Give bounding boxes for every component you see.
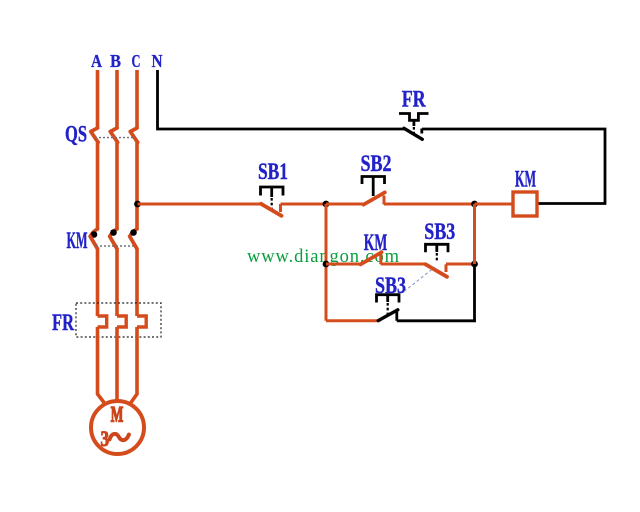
wire phase C lower	[135, 248, 139, 316]
coil KM	[513, 192, 537, 216]
SB3 top stem	[435, 244, 438, 252]
wire node to SB2	[326, 203, 364, 206]
svg-text:KM: KM	[364, 230, 388, 256]
svg-text:SB2: SB2	[361, 151, 392, 177]
wire motor lead A	[98, 327, 106, 405]
svg-text:KM: KM	[515, 167, 536, 193]
FR stem	[412, 120, 415, 126]
branch vertical left	[325, 204, 328, 321]
svg-text:C: C	[132, 51, 141, 71]
SB2 NO blade	[364, 192, 385, 204]
wire phase C middle	[135, 143, 139, 230]
disconnect switch QS pole A	[91, 128, 98, 142]
SB1 NC tick	[279, 204, 282, 212]
FR dashed box	[76, 303, 161, 337]
neutral wire right segment	[422, 129, 605, 204]
SB3 NO tick	[395, 311, 398, 321]
svg-text:SB3: SB3	[424, 219, 455, 245]
wire phase C top	[135, 70, 139, 128]
svg-text:M: M	[111, 401, 124, 426]
FR trip element	[399, 114, 429, 121]
node C tap	[134, 201, 141, 208]
wire phase B top	[115, 70, 119, 128]
node right middle	[471, 261, 478, 268]
SB2 stem	[372, 177, 375, 197]
right vertical black	[473, 264, 476, 322]
wire motor lead B	[115, 327, 119, 402]
thermal relay FR heater C	[137, 316, 146, 327]
motor M circle	[91, 401, 144, 454]
bottom wire black	[397, 319, 476, 322]
contactor KM main contact A	[91, 229, 98, 235]
SB1 button cap	[261, 187, 284, 196]
svg-text:FR: FR	[52, 310, 75, 336]
SB3 linkage dashed	[404, 267, 435, 292]
contactor KM main contact B	[111, 229, 118, 235]
SB1 stem	[270, 187, 273, 197]
SB1 NC blade	[261, 204, 282, 216]
wire phase B middle	[115, 143, 119, 230]
SB3 bottom button cap	[377, 295, 400, 303]
SB3 bottom stem	[386, 295, 389, 302]
wire SB3nc to node5	[446, 263, 475, 266]
thermal relay FR heater A	[98, 316, 107, 327]
bottom wire red	[326, 319, 378, 322]
wire to KM aux	[326, 263, 361, 266]
wire phase A middle	[96, 143, 100, 230]
svg-text:SB3: SB3	[375, 273, 406, 299]
svg-text:FR: FR	[402, 87, 427, 113]
disconnect switch QS pole B	[110, 128, 117, 142]
QS linkage dashed	[95, 137, 133, 139]
SB3 NO blade	[378, 310, 398, 321]
wire SB1 to node	[281, 203, 327, 206]
control wire to SB1	[138, 203, 262, 206]
contactor KM main contact C	[131, 229, 138, 235]
thermal relay FR heater B	[117, 316, 126, 327]
SB3 NC tick	[445, 264, 448, 272]
right vertical red	[473, 204, 476, 264]
KM linkage dashed	[96, 245, 134, 247]
svg-text:KM: KM	[67, 228, 88, 254]
neutral wire N	[158, 70, 405, 129]
svg-text:N: N	[152, 51, 163, 71]
svg-text:A: A	[91, 51, 102, 71]
SB2 NO tick	[383, 196, 386, 205]
KM aux NO blade	[361, 252, 382, 264]
svg-text:SB1: SB1	[258, 159, 288, 185]
KM aux NO tick	[379, 255, 382, 264]
disconnect switch QS pole C	[130, 128, 137, 142]
wire node3 to coil	[475, 203, 514, 206]
SB3 NC blade	[425, 264, 447, 277]
SB3 top button cap	[426, 244, 449, 252]
FR NC contact tick	[420, 129, 423, 134]
wire phase A lower	[96, 248, 100, 316]
wire SB2 to node3	[384, 203, 475, 206]
svg-text:QS: QS	[65, 122, 87, 148]
wire phase B lower	[115, 248, 119, 316]
node after SB1	[323, 201, 330, 208]
FR NC contact blade	[404, 128, 422, 139]
SB2 button cap	[362, 177, 385, 185]
node middle branch	[323, 261, 330, 268]
svg-text:B: B	[110, 51, 121, 71]
wire KM aux to SB3nc	[381, 263, 426, 266]
motor tilde	[110, 434, 129, 440]
wire phase A top	[96, 70, 100, 128]
wire motor lead C	[130, 327, 138, 405]
node before coil	[471, 201, 478, 208]
